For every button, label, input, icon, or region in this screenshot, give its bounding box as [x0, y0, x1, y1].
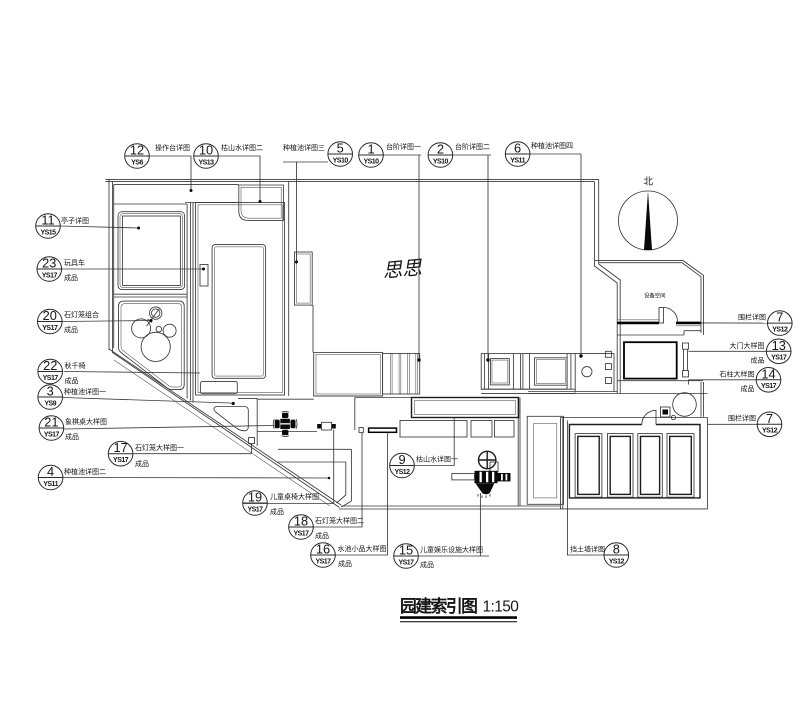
leader 13 [689, 350, 767, 352]
callout bubble 21 [39, 415, 64, 441]
svg-text:15: 15 [399, 543, 413, 558]
svg-text:YS17: YS17 [42, 325, 58, 332]
play equipment: body blocks [475, 471, 498, 483]
svg-text:成品: 成品 [64, 325, 78, 334]
svg-text:1:150: 1:150 [483, 599, 520, 616]
svg-text:16: 16 [316, 542, 330, 557]
callout bubble 23 [37, 256, 62, 282]
door leaf in equipment room [659, 308, 664, 324]
leader 18 [313, 433, 362, 527]
tatami panel 3 [638, 434, 663, 498]
court floor edge [528, 391, 617, 393]
callout bubble 14 [756, 366, 781, 392]
tall panel right [527, 416, 563, 504]
callout bubble 1 [359, 142, 384, 168]
retaining block inner thick wall [569, 425, 700, 498]
toy car rect [200, 265, 208, 287]
wire top boundary wall [106, 178, 599, 180]
leader 7 top [701, 322, 768, 324]
tatami panel 2 [608, 434, 634, 498]
leader 17 [133, 453, 252, 455]
central panel outer [196, 203, 285, 396]
operation counter strip top [185, 202, 239, 204]
planter three [295, 252, 313, 305]
svg-text:YS13: YS13 [198, 159, 214, 166]
svg-text:水池小品大样图: 水池小品大样图 [338, 544, 387, 553]
small stone feature [661, 407, 671, 417]
svg-text:成品: 成品 [135, 459, 149, 468]
retaining block outer [561, 418, 708, 509]
leader 5 [283, 161, 328, 163]
svg-text:台阶详图二: 台阶详图二 [455, 142, 490, 151]
svg-text:YS17: YS17 [293, 530, 309, 537]
svg-text:亭子详图: 亭子详图 [61, 216, 89, 225]
gate plan rectangle [624, 342, 677, 378]
pond mickey-blob [132, 319, 151, 338]
svg-text:2: 2 [437, 142, 444, 157]
svg-text:17: 17 [113, 440, 127, 455]
callout bubble 3 [38, 384, 63, 410]
svg-text:成品: 成品 [65, 376, 79, 385]
svg-text:石灯笼大样图二: 石灯笼大样图二 [315, 516, 364, 525]
leader 16 [335, 432, 387, 555]
court right wall [700, 382, 702, 417]
svg-text:YS11: YS11 [43, 481, 58, 488]
svg-text:7: 7 [776, 310, 783, 325]
svg-text:围栏详图: 围栏详图 [738, 313, 766, 322]
tatami panel 4 [667, 434, 694, 498]
callout bubble 20 [38, 308, 63, 334]
svg-text:石灯笼大样图一: 石灯笼大样图一 [135, 443, 184, 452]
svg-text:YS12: YS12 [394, 469, 410, 476]
play equipment: rings [452, 451, 511, 498]
svg-text:YS17: YS17 [398, 559, 414, 566]
callout bubble 9 [390, 452, 415, 478]
leader 3 [63, 398, 231, 404]
leader 11 [60, 226, 138, 228]
bench with side pads [317, 422, 336, 430]
small court circle [582, 367, 592, 377]
svg-text:YS17: YS17 [42, 272, 58, 279]
svg-text:成品: 成品 [751, 356, 765, 365]
svg-text:枯山水详图一: 枯山水详图一 [416, 455, 458, 464]
small pond circle [156, 326, 162, 332]
svg-text:YS9: YS9 [44, 400, 56, 407]
wire right boundary step down to equipment room [598, 179, 600, 262]
bay divider above pavilion [114, 203, 187, 205]
callout bubble 10 [194, 143, 219, 169]
svg-text:成品: 成品 [420, 560, 434, 569]
equipment room bottom wall (thick) [617, 322, 659, 325]
wire diagonal boundary [109, 349, 341, 505]
leader 8 [567, 421, 604, 556]
leader 9 [414, 418, 454, 466]
leader 23 [62, 268, 204, 270]
callout bubble 2 [428, 142, 453, 168]
stone lantern in pond [150, 307, 162, 319]
gate post bottom [683, 371, 689, 377]
corridor wall lines [186, 204, 188, 399]
svg-text:成品: 成品 [65, 432, 79, 441]
svg-text:4: 4 [47, 464, 54, 479]
block door arc [642, 410, 656, 424]
callout bubble 7b [757, 411, 782, 437]
callout bubble 18 [289, 514, 314, 540]
svg-text:14: 14 [761, 366, 775, 381]
svg-text:12: 12 [130, 143, 144, 158]
wire left boundary wall [108, 179, 110, 350]
swing bench rect at panel bottom [200, 381, 237, 393]
svg-text:YS6: YS6 [131, 159, 143, 166]
svg-text:YS12: YS12 [772, 326, 788, 333]
svg-text:围栏详图: 围栏详图 [728, 414, 756, 423]
svg-text:成品: 成品 [270, 507, 284, 516]
chess table symbol [273, 411, 297, 436]
svg-text:种植池详图三: 种植池详图三 [283, 143, 325, 152]
leader 6 [529, 153, 581, 155]
svg-text:YS17: YS17 [113, 457, 129, 464]
svg-text:YS17: YS17 [761, 383, 777, 390]
svg-text:8: 8 [613, 542, 620, 557]
svg-text:操作台详图: 操作台详图 [155, 143, 190, 152]
svg-text:石柱大样图: 石柱大样图 [720, 370, 755, 379]
round table [673, 393, 697, 417]
svg-text:石灯笼组合: 石灯笼组合 [64, 310, 99, 319]
wire gate court lower edge [617, 380, 703, 382]
svg-text:1: 1 [367, 142, 374, 157]
svg-text:设备空间: 设备空间 [644, 292, 666, 300]
steps platform [314, 352, 383, 396]
svg-text:成品: 成品 [64, 273, 78, 282]
svg-text:秋千椅: 秋千椅 [65, 361, 86, 370]
leader 4 [63, 477, 329, 480]
svg-text:21: 21 [44, 415, 58, 430]
callout bubble 15 [394, 543, 419, 569]
callout bubble 5 [328, 141, 353, 167]
svg-text:北: 北 [644, 177, 654, 188]
mid-section right wall [517, 398, 519, 507]
mid-section bottom wall [341, 505, 561, 507]
svg-text:园建索引图: 园建索引图 [400, 596, 477, 616]
leader 19 [243, 503, 334, 505]
svg-text:儿童桌椅大样图: 儿童桌椅大样图 [270, 492, 319, 501]
steps hatch [389, 353, 391, 394]
callout bubble 22 [38, 358, 63, 384]
svg-text:成品: 成品 [315, 531, 329, 540]
tatami panel 1 [575, 434, 602, 498]
long planter (thick) [412, 398, 519, 418]
fence post squares [605, 351, 611, 357]
leader 15 [394, 555, 489, 557]
svg-text:挡土墙详图: 挡土墙详图 [570, 545, 605, 554]
square planter A with hatch [481, 354, 567, 390]
svg-text:YS10: YS10 [333, 157, 349, 164]
leader 21 [64, 426, 275, 430]
svg-text:13: 13 [772, 338, 786, 353]
dry-landscape-2 notch [239, 185, 284, 220]
callout bubble 19 [243, 490, 268, 516]
svg-text:YS12: YS12 [762, 428, 778, 435]
bay divider between pavilion and pond [114, 293, 187, 295]
svg-text:儿童娱乐设施大样图: 儿童娱乐设施大样图 [420, 545, 483, 554]
svg-text:枯山水详图二: 枯山水详图二 [221, 143, 263, 152]
svg-text:YS10: YS10 [363, 158, 379, 165]
gate post top [683, 343, 689, 349]
svg-text:18: 18 [294, 514, 308, 529]
play equipment: left bar [452, 474, 475, 480]
svg-text:种植池详图四: 种植池详图四 [531, 141, 573, 150]
svg-text:11: 11 [41, 213, 54, 228]
svg-text:19: 19 [248, 490, 262, 505]
leader 12 [149, 156, 191, 190]
inner face of left/top wall [114, 184, 239, 186]
leader 14 [689, 379, 757, 381]
play equipment: slide funnel [475, 483, 494, 494]
wire path edge below central panel [238, 397, 257, 399]
svg-text:玩具车: 玩具车 [64, 258, 85, 267]
svg-text:YS17: YS17 [247, 506, 263, 513]
leader 22 [64, 372, 200, 374]
svg-text:22: 22 [43, 358, 57, 373]
svg-text:YS17: YS17 [771, 355, 787, 362]
three pools row [400, 421, 467, 438]
bench bar [369, 428, 397, 432]
callout bubble 13 [766, 338, 791, 364]
svg-text:9: 9 [398, 452, 405, 467]
callout bubble 8 [604, 542, 629, 568]
pavilion panel (ting) [118, 212, 185, 290]
svg-text:20: 20 [43, 308, 57, 323]
gate jamb lines [683, 349, 685, 370]
svg-text:YS17: YS17 [43, 375, 59, 382]
callout bubble 4 [38, 464, 63, 490]
leader 20 [62, 321, 151, 322]
svg-text:YS15: YS15 [40, 229, 56, 236]
square planter B [535, 358, 568, 385]
svg-text:YS17: YS17 [44, 431, 60, 438]
gate court left wall [616, 333, 618, 393]
svg-text:成品: 成品 [741, 384, 755, 393]
wire gate court upper edge [617, 334, 684, 336]
callout bubble 12 [125, 143, 150, 169]
svg-text:6: 6 [514, 141, 521, 156]
callout bubble 11 [36, 213, 61, 239]
svg-text:大门大样图: 大门大样图 [730, 341, 765, 350]
svg-text:种植池详图一: 种植池详图一 [64, 387, 106, 396]
equipment room outline [595, 261, 704, 335]
mid-section top edge [355, 397, 412, 399]
callout bubble 6 [505, 141, 530, 167]
callout bubble 7a [768, 310, 793, 336]
leader 10 [218, 156, 260, 201]
north arrow [619, 177, 678, 251]
svg-text:YS11: YS11 [510, 157, 525, 164]
pond panel pentagon [119, 301, 185, 390]
svg-text:10: 10 [199, 143, 213, 158]
leader 2 [452, 154, 491, 156]
door swing arc [664, 308, 678, 322]
triangle planter [214, 407, 248, 431]
svg-text:思思: 思思 [382, 257, 424, 282]
svg-text:23: 23 [42, 256, 56, 271]
svg-text:7: 7 [766, 411, 773, 426]
svg-text:YS17: YS17 [315, 558, 331, 565]
svg-text:成品: 成品 [338, 559, 352, 568]
open area lower edge [312, 305, 314, 352]
callout bubble 16 [311, 542, 336, 568]
svg-text:YS10: YS10 [433, 158, 449, 165]
leader 7 bottom [707, 423, 757, 425]
svg-text:象棋桌大样图: 象棋桌大样图 [65, 417, 107, 426]
svg-text:台阶详图一: 台阶详图一 [386, 142, 421, 151]
svg-text:5: 5 [337, 141, 344, 156]
mid-section left wall [278, 448, 351, 450]
stone lantern one (small square) [249, 438, 255, 444]
svg-text:种植池详图二: 种植池详图二 [64, 467, 106, 476]
callout bubble 17 [108, 440, 133, 466]
inner garden rounded rect [212, 245, 266, 379]
svg-text:YS12: YS12 [609, 558, 625, 565]
svg-text:3: 3 [47, 384, 54, 399]
leader 1 [383, 154, 421, 156]
